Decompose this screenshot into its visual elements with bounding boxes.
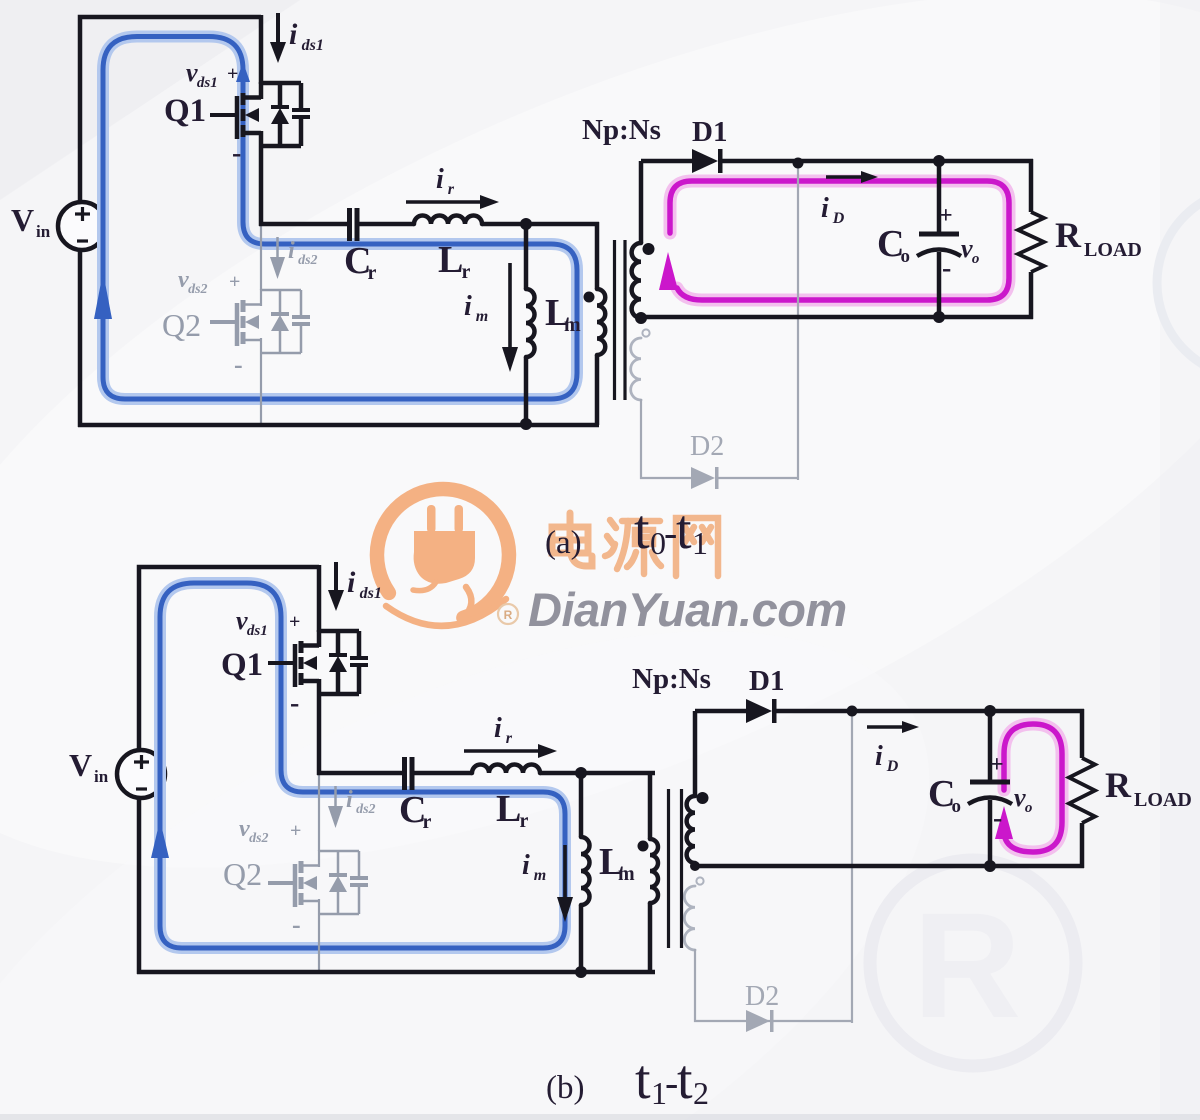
- svg-text:D2: D2: [745, 981, 779, 1012]
- svg-text:-: -: [290, 688, 299, 719]
- svg-text:i: i: [464, 291, 472, 322]
- svg-text:Np:Ns: Np:Ns: [582, 114, 661, 146]
- watermark char yuan: [605, 520, 661, 574]
- wire Q1 source (a): [259, 146, 264, 226]
- diode D2 (a): [691, 467, 715, 489]
- svg-text:o: o: [901, 246, 911, 267]
- svg-text:t: t: [676, 499, 692, 561]
- svg-text:i: i: [436, 164, 444, 195]
- winding secondary lower (a): [631, 338, 641, 400]
- wire mid 2 (b): [414, 771, 472, 776]
- node D2 wire top (b): [847, 706, 858, 717]
- wire mid (b): [317, 771, 402, 776]
- svg-text:D1: D1: [692, 116, 727, 148]
- svg-text:i: i: [821, 193, 829, 224]
- transistor Q1 (b): [319, 629, 359, 634]
- svg-text:ds2: ds2: [188, 282, 207, 297]
- current arrow ids2 (a): [276, 237, 279, 260]
- voltage source Vin marks (b): [134, 760, 149, 763]
- svg-text:o: o: [952, 796, 962, 817]
- wire Q2 source (b): [318, 914, 320, 974]
- current arrow ir (a): [406, 200, 481, 204]
- wire left lower (b): [137, 796, 142, 974]
- svg-text:ds1: ds1: [360, 585, 382, 602]
- svg-text:R: R: [1105, 765, 1132, 805]
- node Co top (b): [984, 705, 996, 717]
- inductor Lm (a): [524, 222, 529, 289]
- current arrow up left (a): [94, 272, 112, 319]
- wire mid 3 (a): [482, 222, 599, 227]
- node bottom Lm (b): [575, 966, 587, 978]
- voltage source body Vin (a): [58, 202, 106, 250]
- svg-text:+: +: [229, 271, 240, 293]
- wire left lower (a): [78, 248, 83, 427]
- polarity dot secondary (b): [697, 792, 709, 804]
- svg-text:Np:Ns: Np:Ns: [632, 663, 711, 695]
- svg-text:LOAD: LOAD: [1084, 239, 1142, 261]
- capacitor Co (b): [988, 711, 993, 782]
- transformer secondary winding (a): [639, 161, 644, 243]
- watermark char dian: [552, 513, 592, 566]
- svg-text:r: r: [423, 811, 432, 833]
- svg-text:D2: D2: [690, 431, 724, 462]
- node mid (b): [575, 767, 587, 779]
- current loop secondary (a): [670, 181, 1009, 300]
- svg-text:ds1: ds1: [302, 37, 324, 54]
- svg-text:r: r: [506, 730, 513, 747]
- wire Q1 source (b): [317, 694, 322, 775]
- wire secondary top 2 (b): [774, 709, 1084, 714]
- logo registered mark: [498, 604, 518, 624]
- svg-text:R: R: [504, 608, 513, 622]
- inductor Lr (b): [472, 765, 540, 774]
- diode D2 (b): [746, 1010, 770, 1032]
- current arrow secondary (b): [995, 806, 1013, 839]
- inductor Lr (a): [414, 216, 482, 225]
- svg-text:i: i: [289, 18, 298, 51]
- current arrow ids1 (b): [334, 562, 338, 592]
- node mid (a): [520, 218, 532, 230]
- polarity dot secondary lower (b): [696, 877, 703, 884]
- svg-text:m: m: [476, 308, 488, 325]
- node bottom Lm (a): [520, 418, 532, 430]
- current arrow secondary (a): [659, 252, 678, 290]
- svg-text:t: t: [677, 1049, 693, 1111]
- node Co bottom (a): [933, 311, 945, 323]
- winding secondary lower (b): [684, 886, 695, 950]
- svg-text:Q1: Q1: [221, 647, 263, 683]
- wire D2 right (a): [718, 477, 798, 479]
- node secondary bottom (b): [690, 861, 700, 871]
- transistor Q2 (a): [261, 289, 301, 292]
- svg-text:+: +: [990, 752, 1004, 778]
- svg-text:i: i: [346, 787, 353, 813]
- logo tail: [386, 599, 506, 626]
- polarity dot primary (b): [638, 841, 649, 852]
- svg-text:i: i: [288, 238, 295, 264]
- voltage source Vin marks (a): [75, 212, 90, 215]
- current arrow im (a): [508, 263, 512, 350]
- current arrow im (b): [563, 845, 567, 898]
- wire mid 2 (a): [359, 222, 414, 227]
- svg-text:i: i: [875, 741, 883, 772]
- current loop primary (b): [160, 583, 565, 948]
- logo plug prong 2: [455, 505, 464, 533]
- svg-text:Q2: Q2: [223, 856, 262, 892]
- capacitor Cr (b): [402, 757, 407, 790]
- wire Q2 drain (b): [318, 773, 320, 851]
- wire D2 left (a): [641, 399, 691, 478]
- svg-text:r: r: [520, 810, 529, 832]
- watermark arc top-right: [1157, 188, 1200, 378]
- svg-text:i: i: [494, 713, 502, 744]
- svg-text:(a): (a): [545, 525, 582, 561]
- wire left upper (b): [139, 567, 319, 752]
- svg-text:ds1: ds1: [197, 75, 218, 91]
- svg-text:+: +: [289, 611, 300, 633]
- svg-text:+: +: [290, 820, 301, 842]
- svg-text:r: r: [448, 181, 455, 198]
- svg-text:-: -: [993, 803, 1002, 834]
- watermark R circle: [870, 860, 1076, 1066]
- svg-text:r: r: [368, 262, 377, 284]
- svg-text:V: V: [11, 202, 34, 238]
- svg-text:ds2: ds2: [298, 253, 317, 268]
- logo ring: [377, 489, 509, 618]
- logo plug prong 1: [427, 505, 436, 533]
- svg-text:DianYuan.com: DianYuan.com: [528, 583, 847, 636]
- svg-text:ds2: ds2: [356, 802, 375, 817]
- current arrow ids2 (b): [334, 786, 337, 809]
- current arrow up at Q1 (a): [236, 62, 250, 82]
- svg-text:-: -: [292, 910, 301, 939]
- polarity dot primary (a): [584, 292, 595, 303]
- voltage source body Vin (b): [117, 750, 165, 798]
- svg-text:ds2: ds2: [249, 831, 268, 846]
- svg-text:o: o: [1025, 800, 1033, 816]
- wire D2 left (b): [695, 949, 746, 1021]
- node Co bottom (b): [984, 860, 996, 872]
- wire secondary top (a): [641, 159, 692, 164]
- current arrow iD (a): [826, 175, 862, 178]
- svg-text:in: in: [94, 767, 109, 786]
- node Co top (a): [933, 155, 945, 167]
- svg-text:-: -: [232, 138, 241, 169]
- svg-text:D: D: [832, 210, 845, 227]
- svg-text:V: V: [69, 747, 92, 783]
- polarity dot secondary lower (a): [642, 329, 649, 336]
- svg-text:m: m: [618, 863, 635, 885]
- logo ring hook: [463, 587, 471, 618]
- current arrow ir (b): [464, 749, 539, 753]
- svg-text:LOAD: LOAD: [1134, 789, 1192, 811]
- transformer primary winding (b): [648, 771, 653, 839]
- wire bottom (a): [78, 423, 599, 428]
- svg-text:Q1: Q1: [164, 93, 206, 129]
- svg-text:t: t: [635, 1049, 651, 1111]
- wire left upper (a): [80, 17, 261, 204]
- svg-text:-: -: [942, 253, 951, 284]
- svg-text:Q2: Q2: [162, 307, 201, 343]
- svg-text:+: +: [939, 203, 953, 229]
- capacitor Co (a): [937, 161, 942, 234]
- current arrow ids1 (a): [276, 13, 280, 44]
- transformer core (a): [613, 240, 616, 400]
- wire Q2 source (a): [260, 353, 262, 427]
- svg-text:L: L: [496, 788, 521, 830]
- svg-text:in: in: [36, 222, 51, 241]
- logo plug cord: [413, 582, 436, 591]
- wire D2 right (b): [749, 1020, 852, 1022]
- wire bottom (b): [137, 970, 655, 975]
- transformer primary winding (a): [595, 222, 600, 289]
- resistor Rload (a): [1029, 159, 1034, 212]
- wire Q1 drain (a): [259, 15, 264, 84]
- svg-text:i: i: [522, 850, 530, 881]
- svg-text:ds1: ds1: [247, 623, 268, 639]
- svg-text:i: i: [347, 566, 356, 599]
- wire Q2 drain (a): [260, 224, 262, 290]
- transistor Q1 (a): [261, 81, 301, 86]
- svg-text:m: m: [564, 314, 581, 336]
- svg-text:1: 1: [692, 525, 708, 561]
- resistor Rload (b): [1080, 709, 1085, 758]
- wire secondary bottom (b): [695, 864, 1084, 869]
- svg-text:m: m: [534, 867, 546, 884]
- diode D1 (a): [692, 149, 718, 173]
- svg-text:2: 2: [693, 1075, 709, 1111]
- svg-text:D: D: [886, 758, 899, 775]
- wire secondary top (b): [695, 709, 746, 714]
- svg-text:t: t: [634, 499, 650, 561]
- wire secondary bottom (a): [641, 315, 1033, 320]
- current loop secondary (b): [1004, 724, 1062, 852]
- current loop primary (a): [103, 37, 577, 400]
- node D2 wire top (a): [793, 158, 804, 169]
- transformer secondary winding (b): [693, 711, 698, 796]
- polarity dot secondary (a): [643, 243, 655, 255]
- svg-text:(b): (b): [546, 1070, 584, 1106]
- svg-text:R: R: [913, 881, 1021, 1049]
- current arrow up left (b): [151, 820, 169, 858]
- wire Q1 drain (b): [317, 565, 322, 632]
- transistor Q2 (b): [319, 850, 359, 853]
- transformer core (b): [667, 789, 670, 948]
- wire mid (a): [259, 222, 347, 227]
- wire mid 3 (b): [540, 771, 655, 776]
- capacitor Cr (a): [347, 208, 352, 241]
- node secondary bottom (a): [635, 312, 647, 324]
- diode D1 (b): [746, 699, 772, 723]
- svg-text:r: r: [462, 261, 471, 283]
- current arrow iD (b): [867, 725, 903, 728]
- svg-text:L: L: [438, 239, 463, 281]
- inductor Lm (b): [579, 771, 584, 837]
- svg-text:+: +: [227, 63, 238, 85]
- svg-text:o: o: [972, 251, 980, 267]
- wire secondary top 2 (a): [720, 159, 1033, 164]
- watermark char wang: [676, 518, 718, 576]
- logo plug body: [414, 531, 475, 584]
- svg-text:-: -: [234, 350, 243, 379]
- svg-text:D1: D1: [749, 665, 784, 697]
- svg-text:R: R: [1055, 215, 1082, 255]
